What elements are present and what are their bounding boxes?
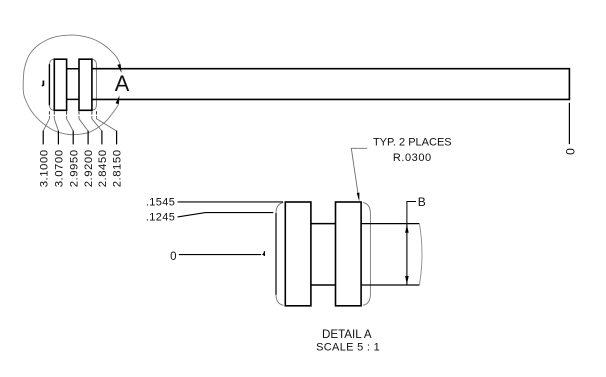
svg-text:.1545: .1545 [146,197,175,209]
detail ordinate 0 leader [179,254,261,256]
dimension B leader bar [407,202,416,224]
svg-text:3.1000: 3.1000 [38,149,50,187]
svg-text:DETAIL A: DETAIL A [322,328,372,341]
ring/land 1 (top view) [54,59,66,110]
dimension B line [406,224,408,285]
ordinate leader slants [43,117,49,131]
detail circle arrowhead top [117,64,121,73]
svg-text:2.8450: 2.8450 [97,149,109,187]
detail: groove lines [311,224,336,285]
svg-text:2.9950: 2.9950 [68,149,80,187]
detail: shaft body lines / B extension lines [361,224,419,285]
hub left tangent outline (thin C with rounded corners) [49,60,54,110]
leader arrowhead at fillet [357,193,360,202]
svg-text:0: 0 [170,251,176,263]
shaft body outline [92,69,570,100]
detail: right tangent line [369,213,371,295]
detail: ring/land 2 [336,202,362,306]
svg-text:B: B [418,195,426,209]
dimension B arrow down [405,276,409,284]
ordinate datum jog mark (left of end face) [42,81,44,86]
svg-text:0: 0 [563,148,577,155]
detail ordinate 0 datum arrow [262,251,265,256]
dimension B closing arc [419,224,422,285]
svg-text:R.0300: R.0300 [393,152,432,164]
ordinate 0 extension line at shaft right end [568,103,570,144]
svg-text:.1245: .1245 [146,212,175,224]
detail: right fillet arc bottom [363,295,371,306]
svg-text:3.0700: 3.0700 [54,149,66,187]
svg-text:SCALE 5 : 1: SCALE 5 : 1 [316,342,380,354]
detail circle arrowhead bottom [116,95,120,104]
ordinate leader vertical stems [42,131,44,145]
shaft groove lines between lands [67,69,79,100]
dimension .1245 leader [178,213,274,217]
svg-text:2.9200: 2.9200 [83,149,95,187]
shaft left end face [48,64,50,105]
ring/land 2 (top view) [79,59,92,110]
detail: left fillet arc bottom [276,295,283,306]
detail: right fillet arc top [363,203,371,214]
svg-text:A: A [115,71,130,96]
detail circle A boundary [23,35,120,135]
detail: ring/land 1 [285,202,311,306]
ordinate extension dashes below hub [48,111,50,117]
detail: shaft end face [275,213,277,295]
leader TYP. 2 PLACES / R.0300 [351,148,367,199]
svg-text:TYP. 2 PLACES: TYP. 2 PLACES [373,137,452,149]
detail: left fillet arc top [276,203,283,214]
dimension B arrow up [405,225,409,233]
svg-text:2.8150: 2.8150 [112,149,124,187]
dimension .1545 leader [178,201,283,203]
hub right tangent outline [92,60,97,110]
